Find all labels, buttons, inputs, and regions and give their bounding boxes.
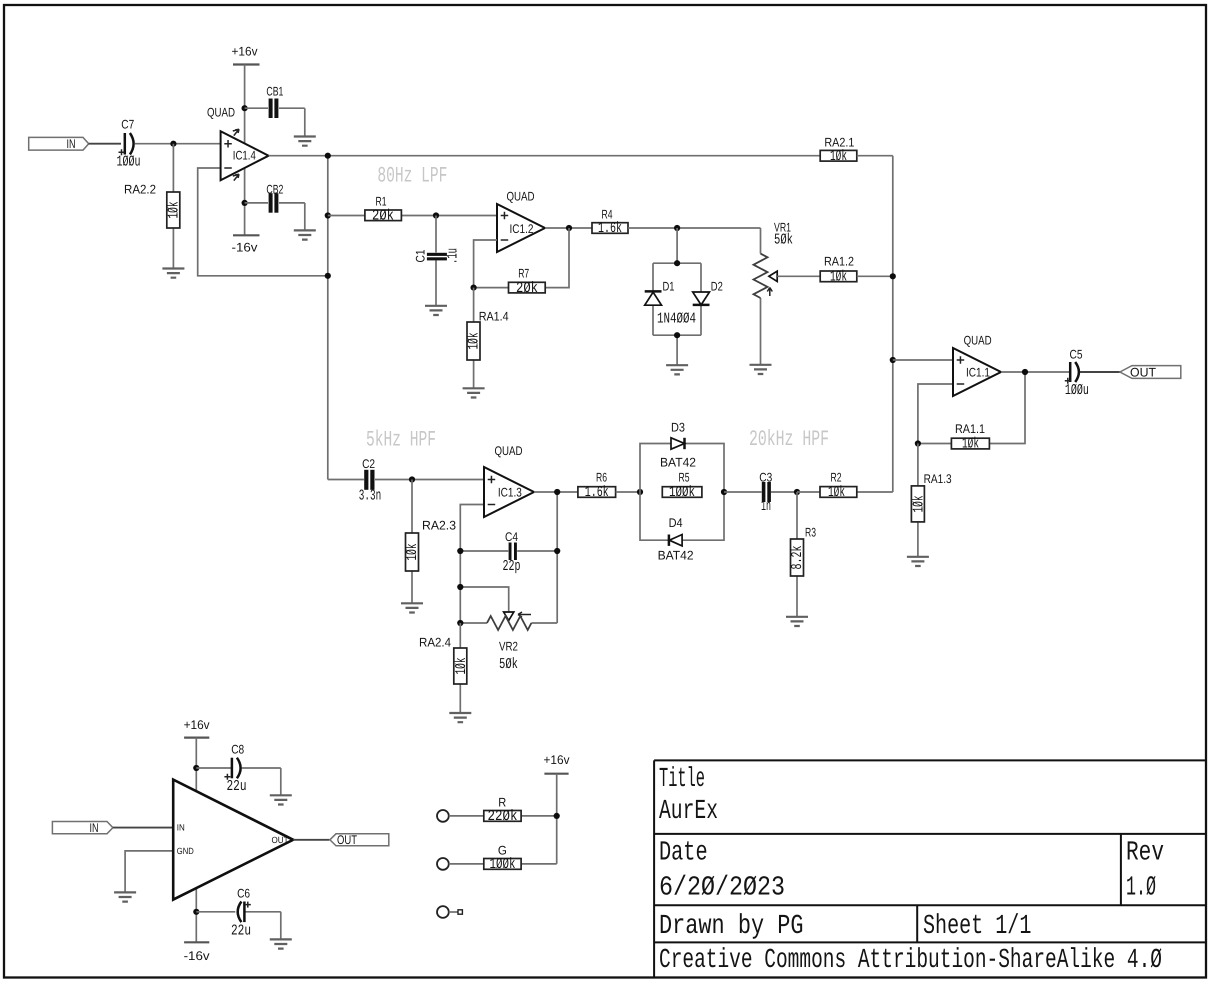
- resistor RA1.1 10k: [951, 422, 989, 453]
- wire D1D2 branch: [653, 228, 701, 365]
- svg-text:RA1.1: RA1.1: [955, 422, 985, 436]
- resistor RA1.3 10k: [911, 444, 952, 557]
- amplifier main triangle: [173, 780, 293, 900]
- wire right vertical bus: [892, 156, 894, 492]
- pin 1 circle: [437, 810, 449, 822]
- resistor RA2.1 10k: [820, 135, 893, 165]
- wire IC1.3 inverting feedback: [460, 492, 557, 623]
- ground (R3): [786, 617, 808, 626]
- wire IC1.1 output: [1001, 371, 1069, 373]
- ground (RA1.4): [463, 388, 485, 397]
- port IN (top-left input): [29, 137, 89, 151]
- svg-text:OUT: OUT: [337, 833, 357, 847]
- svg-text:1ØØu: 1ØØu: [1065, 382, 1089, 399]
- svg-text:OUT: OUT: [272, 835, 289, 845]
- node D1D2 top: [674, 260, 680, 266]
- ground (amp GND pin): [114, 892, 136, 901]
- wire IC1.2 output: [545, 227, 592, 229]
- svg-text:+16v: +16v: [544, 753, 571, 767]
- svg-text:Drawn by PG: Drawn by PG: [659, 911, 804, 942]
- capacitor C7 100u: [117, 117, 141, 170]
- svg-text:RA2.4: RA2.4: [419, 635, 451, 649]
- svg-text:22Øk: 22Øk: [488, 808, 518, 825]
- wire vertical bus left: [327, 156, 329, 480]
- power +16v rail (connector): [544, 753, 571, 864]
- capacitor C2 3.3n: [328, 457, 484, 505]
- node V+ junction: [242, 105, 248, 111]
- port OUT (power amp): [330, 833, 389, 847]
- wire feedback IC1.4: [198, 168, 328, 276]
- svg-text:22u: 22u: [231, 922, 251, 939]
- wire V- stub: [244, 168, 246, 235]
- capacitor C5 100u: [1065, 347, 1089, 399]
- svg-text:Sheet 1/1: Sheet 1/1: [923, 911, 1031, 942]
- node D1D2 bottom: [674, 332, 680, 338]
- svg-text:VR2: VR2: [499, 639, 518, 653]
- svg-text:IC1.1: IC1.1: [966, 366, 990, 380]
- wire IN port to amp: [113, 827, 173, 829]
- svg-text:CB2: CB2: [266, 182, 283, 196]
- pin 2 circle: [437, 858, 449, 870]
- svg-text:1ØØk: 1ØØk: [490, 856, 516, 873]
- svg-text:8.2k: 8.2k: [789, 546, 806, 570]
- node junction at C7/RA2.2: [170, 141, 176, 147]
- node IC1.1 out: [1022, 369, 1028, 375]
- svg-text:RA2.3: RA2.3: [422, 518, 456, 532]
- potentiometer VR2 element: [460, 616, 557, 673]
- svg-text:GND: GND: [177, 846, 194, 856]
- svg-text:QUAD: QUAD: [207, 106, 235, 120]
- capacitor CB1: [245, 85, 305, 137]
- svg-text:D3: D3: [671, 421, 685, 435]
- svg-text:+16v: +16v: [184, 718, 211, 732]
- svg-text:22u: 22u: [227, 778, 247, 795]
- node V- amp: [193, 909, 199, 915]
- svg-text:RA1.2: RA1.2: [824, 255, 854, 269]
- svg-text:R2: R2: [831, 470, 842, 484]
- svg-text:IN: IN: [177, 823, 185, 833]
- wire GND pin: [125, 851, 173, 893]
- ground (RA2.4): [449, 713, 471, 722]
- wire VR1 wiper to RA1.2: [777, 275, 820, 277]
- node bus/R1: [325, 212, 331, 218]
- power +16v rail (power amp): [184, 718, 211, 791]
- node V+ amp: [193, 765, 199, 771]
- svg-text:1ØØu: 1ØØu: [117, 154, 141, 171]
- ground (CB1): [294, 137, 316, 146]
- potentiometer VR1 50k: [754, 220, 794, 364]
- resistor G 100k: [449, 843, 557, 873]
- capacitor CB2: [245, 182, 305, 230]
- wire bus to IC1.1: [893, 359, 953, 361]
- node V- junction: [242, 200, 248, 206]
- pin 3 circle: [437, 906, 449, 918]
- resistor RA2.3 10k: [404, 480, 456, 604]
- wire IC1.1 inverting feedback: [918, 372, 1025, 444]
- svg-text:CB1: CB1: [266, 85, 283, 99]
- svg-text:1Øk: 1Øk: [404, 544, 421, 561]
- capacitor C3 1n: [724, 470, 797, 515]
- svg-text:BAT42: BAT42: [660, 456, 696, 470]
- resistor R 220k: [449, 795, 557, 825]
- svg-text:RA1.3: RA1.3: [924, 472, 952, 486]
- svg-text:R7: R7: [518, 267, 529, 281]
- svg-text:2Øk: 2Øk: [372, 208, 394, 225]
- node bus/RA1.2: [890, 273, 896, 279]
- svg-text:80Hz LPF: 80Hz LPF: [377, 164, 447, 189]
- svg-text:C1: C1: [414, 249, 428, 262]
- svg-text:2Øk: 2Øk: [516, 280, 538, 297]
- port IN (power amp): [52, 821, 113, 835]
- wire pin 3 stub: [449, 911, 458, 913]
- diode D3 BAT42: [660, 421, 696, 470]
- svg-text:AurEx: AurEx: [659, 796, 718, 827]
- node C4 right: [554, 548, 560, 554]
- svg-text:5kHz HPF: 5kHz HPF: [366, 428, 436, 453]
- svg-text:QUAD: QUAD: [495, 444, 523, 458]
- node R4/D1D2: [674, 225, 680, 231]
- resistor R1 20k: [328, 195, 497, 225]
- node IC1.3 out: [554, 489, 560, 495]
- ground (C1): [425, 306, 447, 315]
- node wiper branch: [457, 584, 463, 590]
- ground (RA2.2): [162, 269, 184, 278]
- svg-text:R1: R1: [376, 195, 387, 209]
- resistor R2 10k: [797, 470, 893, 501]
- node bus/output: [325, 153, 331, 159]
- svg-text:RA2.2: RA2.2: [124, 182, 156, 196]
- ground (VR1): [750, 365, 772, 374]
- svg-text:6/2Ø/2Ø23: 6/2Ø/2Ø23: [659, 873, 785, 904]
- capacitor C4 22p: [460, 530, 557, 575]
- svg-text:C8: C8: [231, 743, 244, 757]
- svg-text:+16v: +16v: [232, 45, 259, 59]
- svg-text:1.Ø: 1.Ø: [1126, 873, 1156, 904]
- svg-text:BAT42: BAT42: [658, 549, 694, 563]
- svg-text:QUAD: QUAD: [964, 333, 992, 347]
- svg-text:IC1.3: IC1.3: [498, 486, 522, 500]
- svg-text:1Øk: 1Øk: [830, 148, 847, 165]
- wire D4 branch: [640, 492, 724, 540]
- svg-text:1.6k: 1.6k: [598, 220, 622, 237]
- svg-text:Creative Commons Attribution-S: Creative Commons Attribution-ShareAlike …: [659, 945, 1162, 976]
- svg-text:Rev: Rev: [1126, 838, 1164, 869]
- svg-text:1Øk: 1Øk: [911, 496, 928, 513]
- resistor R6 1.6k: [578, 471, 640, 502]
- pad pin 3: [458, 910, 462, 914]
- svg-text:1.6k: 1.6k: [585, 484, 609, 501]
- diode D1 1N4004: [645, 280, 675, 306]
- power -16v rail (power amp): [184, 942, 211, 963]
- wire D3 branch: [640, 444, 724, 493]
- power -16v rail: [232, 235, 260, 254]
- svg-text:1Øk: 1Øk: [166, 202, 183, 219]
- node bus/feedback: [325, 273, 331, 279]
- svg-text:1Øk: 1Øk: [830, 269, 847, 286]
- diode D4 BAT42: [658, 516, 694, 563]
- node C3/R3: [794, 489, 800, 495]
- capacitor C8 22u: [196, 743, 280, 796]
- svg-text:1Øk: 1Øk: [453, 658, 470, 675]
- resistor R7 20k: [509, 267, 546, 297]
- svg-text:RA1.4: RA1.4: [479, 310, 509, 324]
- wire IC1.4 output bus: [269, 155, 821, 157]
- op-amp IC1.3: [484, 444, 534, 517]
- ground (RA1.3): [907, 557, 929, 566]
- wire IC1.3 output: [534, 491, 578, 493]
- svg-text:20kHz HPF: 20kHz HPF: [749, 427, 829, 452]
- svg-text:D1: D1: [663, 280, 675, 294]
- svg-text:C4: C4: [505, 530, 518, 544]
- wire V- amp: [195, 888, 197, 942]
- resistor RA1.4 10k: [466, 288, 509, 389]
- ground (C8): [270, 795, 292, 804]
- diode D2 1N4004: [693, 280, 723, 305]
- svg-text:R5: R5: [679, 470, 690, 484]
- node R5/C3: [721, 489, 727, 495]
- node bus/IC1.1 input: [890, 357, 896, 363]
- svg-text:IN: IN: [90, 821, 99, 835]
- capacitor C6 22u: [196, 887, 280, 940]
- svg-text:1Øk: 1Øk: [962, 436, 979, 453]
- node R7/RA1.4: [471, 285, 477, 291]
- node RA1.1/RA1.3: [915, 440, 921, 446]
- node VR2/RA2.4: [457, 620, 463, 626]
- svg-text:OUT: OUT: [1130, 365, 1156, 379]
- resistor RA1.2 10k: [820, 255, 893, 286]
- potentiometer VR2 50k wiper: [504, 612, 531, 621]
- svg-text:Date: Date: [659, 838, 708, 869]
- wire C7 to opamp: [135, 143, 221, 145]
- ground (C6): [270, 939, 292, 948]
- svg-text:R6: R6: [596, 471, 607, 485]
- svg-text:D4: D4: [669, 516, 683, 530]
- svg-text:1Øk: 1Øk: [828, 484, 845, 501]
- svg-text:22p: 22p: [503, 558, 521, 575]
- node R1/C1: [433, 212, 439, 218]
- svg-text:1N4ØØ4: 1N4ØØ4: [657, 311, 696, 328]
- svg-text:C2: C2: [362, 457, 375, 471]
- node R6/D3D4: [637, 489, 643, 495]
- svg-text:1n: 1n: [761, 498, 771, 515]
- wire amp output: [293, 839, 329, 841]
- svg-text:IN: IN: [67, 137, 76, 151]
- power +16v rail: [232, 45, 260, 144]
- svg-text:R3: R3: [805, 525, 816, 539]
- node C4 left: [457, 548, 463, 554]
- op-amp IC1.1: [953, 333, 1001, 396]
- wire IC1.2 inverting feedback: [474, 228, 569, 288]
- svg-text:C5: C5: [1070, 347, 1083, 361]
- svg-text:.1u: .1u: [445, 248, 462, 264]
- svg-text:C3: C3: [759, 470, 772, 484]
- resistor R5 100k: [662, 470, 702, 501]
- op-amp IC1.4: [207, 106, 269, 181]
- svg-text:C6: C6: [237, 887, 250, 901]
- svg-text:IC1.2: IC1.2: [510, 222, 534, 236]
- node C2/RA2.3: [409, 476, 415, 482]
- wire IN to C7: [89, 143, 121, 145]
- svg-text:QUAD: QUAD: [507, 190, 535, 204]
- ground (D1D2): [666, 365, 688, 374]
- port OUT (top-right): [1120, 365, 1181, 379]
- svg-text:-16v: -16v: [232, 240, 259, 254]
- op-amp IC1.2: [497, 190, 545, 252]
- svg-text:-16v: -16v: [184, 949, 211, 963]
- capacitor C1 .1u: [414, 216, 462, 306]
- svg-text:3.3n: 3.3n: [359, 488, 382, 505]
- wire VR2 wiper branch: [460, 587, 508, 612]
- resistor RA2.4 10k: [419, 623, 470, 713]
- ground (RA2.3): [401, 603, 423, 612]
- resistor R4 1.6k: [592, 208, 761, 238]
- svg-text:D2: D2: [711, 280, 723, 294]
- svg-text:Title: Title: [659, 764, 705, 795]
- svg-text:IC1.4: IC1.4: [233, 149, 256, 163]
- svg-text:5Øk: 5Øk: [499, 656, 518, 673]
- title block frame: [654, 760, 1205, 977]
- resistor RA2.2 10k: [124, 144, 183, 269]
- wire C5 to OUT: [1080, 371, 1120, 373]
- node R/+16v: [554, 813, 560, 819]
- svg-text:1Øk: 1Øk: [466, 333, 483, 350]
- svg-text:1ØØk: 1ØØk: [669, 484, 695, 501]
- svg-text:5Øk: 5Øk: [774, 232, 793, 249]
- node IC1.2 out/R7: [566, 225, 572, 231]
- resistor R3 8.2k: [789, 492, 816, 617]
- ground (CB2): [294, 230, 316, 239]
- svg-text:C7: C7: [121, 117, 134, 131]
